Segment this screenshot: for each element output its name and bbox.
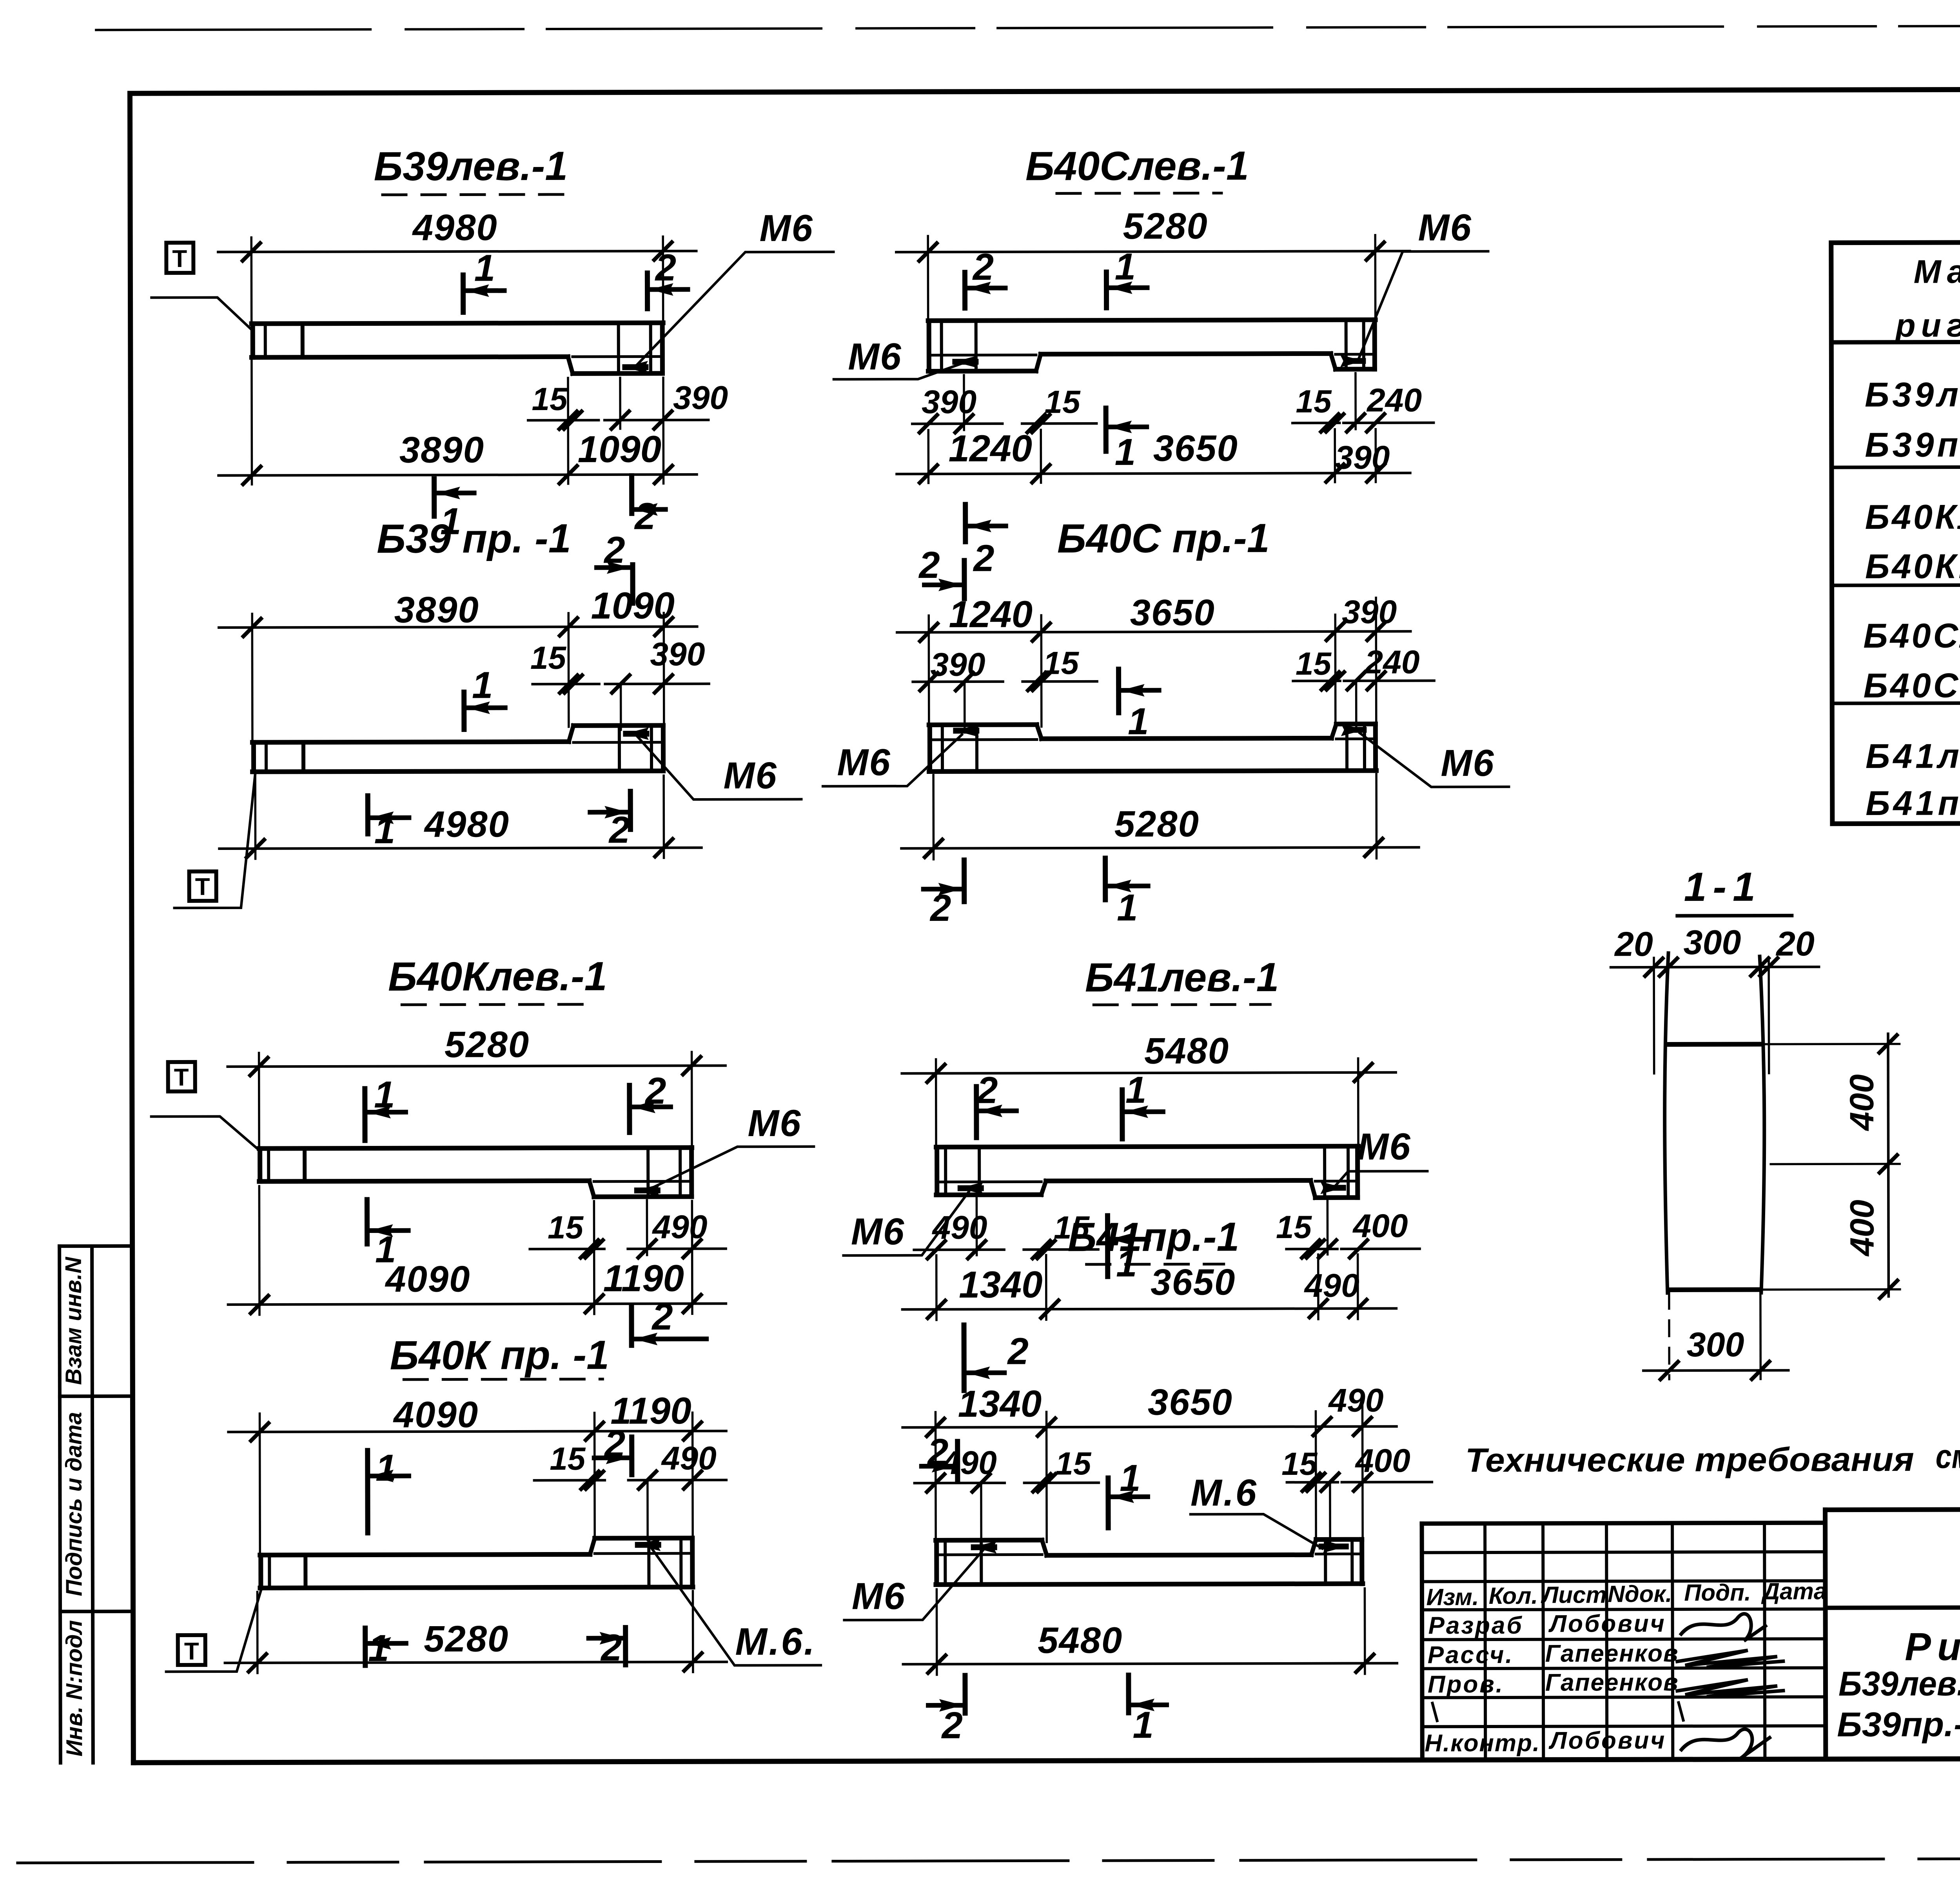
B40Spr-1 dims 15 240 row right <box>1355 681 1357 728</box>
svg-text:1090: 1090 <box>591 585 675 626</box>
svg-text:Б39пр.-1: Б39пр.-1 <box>1865 425 1960 464</box>
svg-text:Кол.: Кол. <box>1489 1583 1538 1609</box>
B41lev-1 bottom dims 1340 3650 490 <box>935 1255 938 1320</box>
svg-text:400: 400 <box>1355 1442 1410 1479</box>
B39pr-1 section mark 2 bottom <box>628 792 633 830</box>
svg-text:Б41пр.-1: Б41пр.-1 <box>1866 783 1960 822</box>
B40Spr-1 top dims 1240 3650 390 <box>927 615 930 727</box>
svg-text:Лобович: Лобович <box>1548 1610 1666 1638</box>
svg-text:390: 390 <box>673 379 728 416</box>
svg-text:15: 15 <box>1296 646 1332 682</box>
section 1-1 top dims 20 300 20 <box>1611 967 1819 967</box>
svg-text:Т: Т <box>195 873 210 901</box>
B39pr-1 top dims 3890 1090 <box>251 614 253 745</box>
svg-text:390: 390 <box>922 383 976 420</box>
B40Slev-1 section mark 2 bottom <box>963 505 968 542</box>
title block empty row ticks <box>1432 1703 1437 1721</box>
B40Klev-1 dim 490 <box>646 1200 648 1255</box>
B41pr-1 section mark 2 bottom <box>962 1676 967 1713</box>
svg-text:2: 2 <box>603 529 625 571</box>
B39lev-1 section mark 1 top <box>461 275 466 312</box>
svg-text:Б39лев.-1 ... Б41лев.-1,: Б39лев.-1 ... Б41лев.-1, <box>1838 1663 1960 1703</box>
svg-text:М6: М6 <box>1441 742 1495 784</box>
B41pr-1 dims 490 15 row <box>980 1483 982 1545</box>
B40Klev-1 top dim 5280 <box>258 1053 260 1150</box>
svg-text:1: 1 <box>1125 1069 1147 1111</box>
B40Kpr-1 bottom dim 5280 <box>256 1592 259 1673</box>
svg-text:240: 240 <box>1366 381 1422 418</box>
svg-text:1: 1 <box>368 1627 389 1669</box>
B40Klev-1 M6 leader and label <box>649 1147 814 1189</box>
svg-text:1: 1 <box>472 664 493 706</box>
svg-text:2: 2 <box>973 537 995 579</box>
B41lev-1 beam outline <box>936 1146 1358 1147</box>
svg-text:2: 2 <box>604 1423 626 1465</box>
B40Slev-1 dims 15 240 row right <box>1354 373 1357 429</box>
B40Kpr-1 dim 15 <box>534 1479 605 1481</box>
svg-text:Разраб: Разраб <box>1428 1612 1523 1639</box>
B40Klev-1 bolt M6 <box>637 1187 657 1193</box>
B40Klev-1 section mark 1 top <box>362 1089 367 1140</box>
svg-text:5480: 5480 <box>1038 1619 1123 1661</box>
svg-text:2: 2 <box>600 1627 622 1669</box>
svg-text:15: 15 <box>1044 384 1081 420</box>
B40Spr-1 M6 left leader and label <box>823 735 962 786</box>
svg-text:4980: 4980 <box>424 803 510 844</box>
svg-text:Подпись и дата: Подпись и дата <box>61 1412 87 1596</box>
section 1-1 bottom dim 300 <box>1668 1293 1670 1379</box>
B40Spr-1 section mark 2 bottom <box>962 860 967 902</box>
B41lev-1 dims 15 400 row right <box>1327 1200 1329 1255</box>
svg-text:Дата: Дата <box>1761 1578 1827 1604</box>
svg-text:Марка: Марка <box>1914 253 1960 290</box>
B40Spr-1 section mark 1 bottom <box>1103 858 1108 900</box>
svg-text:2: 2 <box>976 1069 998 1111</box>
B39pr-1 section mark 1 mid <box>461 692 466 729</box>
B40Slev-1 top dim 5280 <box>927 236 929 319</box>
svg-text:Б41лев.-1: Б41лев.-1 <box>1085 955 1279 1000</box>
svg-text:5280: 5280 <box>424 1618 509 1659</box>
svg-text:Б39лев.-1: Б39лев.-1 <box>1865 375 1960 414</box>
B40Klev-1 bottom dims 4090 1190 <box>258 1186 261 1315</box>
B41pr-1 dims 15 400 row right <box>1329 1482 1331 1541</box>
B40Klev-1 beam outline <box>259 1147 692 1148</box>
svg-text:3650: 3650 <box>1148 1381 1233 1422</box>
B39lev-1 section mark 2 top <box>645 273 650 309</box>
svg-text:490: 490 <box>652 1208 707 1245</box>
svg-text:см. 1.420-35.95.2-1-1ТТ.: см. 1.420-35.95.2-1-1ТТ. <box>1936 1437 1960 1476</box>
svg-text:2: 2 <box>655 247 677 289</box>
page edge top dashed line <box>96 25 1960 30</box>
B40Spr-1 M6 right leader and label <box>1360 733 1509 787</box>
svg-text:1240: 1240 <box>948 427 1032 469</box>
B41lev-1 bolt M6 right <box>1326 1185 1343 1191</box>
B40Kpr-1 section mark 1 bottom <box>363 1628 368 1665</box>
B41lev-1 section mark 1 mid-bottom <box>1105 1216 1110 1276</box>
B40Kpr-1 section mark 1 mid <box>365 1451 370 1533</box>
B40Slev-1 bolt M6 right <box>1346 358 1363 364</box>
svg-text:15: 15 <box>1043 645 1080 681</box>
svg-text:2: 2 <box>634 495 656 537</box>
B40Spr-1 bottom dim 5280 <box>932 775 935 859</box>
girder marks table <box>1831 241 1960 824</box>
svg-text:Т: Т <box>184 1638 199 1665</box>
B40Kpr-1 dim 490 <box>646 1480 649 1540</box>
B39lev-1 dim 390 <box>619 378 621 429</box>
B41pr-1 top dims 1340 3650 490 <box>935 1412 937 1542</box>
B39pr-1 M6 leader and label <box>637 736 801 800</box>
B40Slev-1 section mark 2 top <box>962 272 967 308</box>
svg-text:1190: 1190 <box>603 1257 684 1299</box>
B40Spr-1 dims 390 15 row <box>964 682 966 729</box>
B40Slev-1 bottom dims 1240 3650 390 <box>927 430 929 483</box>
svg-text:1: 1 <box>474 247 495 289</box>
B39lev-1 top dim 4980 <box>250 238 252 328</box>
B41lev-1 dims 490 15 row <box>976 1197 978 1255</box>
svg-text:490: 490 <box>941 1444 997 1481</box>
B40Spr-1 bolt M6 left <box>956 728 976 733</box>
B40Slev-1 dims 390 15 row <box>963 375 965 430</box>
svg-text:15: 15 <box>1055 1446 1092 1481</box>
svg-text:15: 15 <box>532 381 568 417</box>
B41pr-1 M6 right leader and label <box>1191 1514 1322 1549</box>
svg-text:Б40Слев-1: Б40Слев-1 <box>1863 616 1960 655</box>
B41lev-1 top dim 5480 <box>935 1059 937 1149</box>
svg-text:1: 1 <box>1115 246 1136 288</box>
B41lev-1 M6 left leader and label <box>843 1192 969 1256</box>
svg-text:1340: 1340 <box>959 1264 1043 1305</box>
svg-text:2: 2 <box>941 1705 963 1747</box>
svg-text:Лист: Лист <box>1541 1581 1607 1608</box>
B40Slev-1 section mark 1 top <box>1104 272 1109 308</box>
svg-text:М6: М6 <box>848 336 902 378</box>
B39lev-1 M6 leader and label <box>636 252 834 365</box>
B40Klev-1 section mark 2 bottom <box>629 1307 634 1345</box>
svg-text:1: 1 <box>1115 431 1136 473</box>
svg-text:2: 2 <box>608 809 630 851</box>
svg-text:Изм.: Изм. <box>1426 1584 1479 1610</box>
svg-text:2: 2 <box>972 246 994 288</box>
B40Kpr-1 M6 leader and label <box>650 1546 821 1666</box>
left stamp column <box>60 1246 61 1763</box>
svg-text:1: 1 <box>374 1074 395 1116</box>
svg-text:1: 1 <box>1120 1457 1141 1499</box>
B41pr-1 bottom dim 5480 <box>936 1589 938 1675</box>
svg-text:1: 1 <box>1132 1704 1154 1746</box>
svg-text:Пров.: Пров. <box>1428 1671 1504 1698</box>
B40Klev-1 section mark 2 top <box>627 1086 632 1133</box>
section 1-1 outline <box>1653 958 1655 1073</box>
svg-text:490: 490 <box>931 1209 987 1246</box>
svg-text:2: 2 <box>1007 1330 1029 1372</box>
svg-text:15: 15 <box>1281 1446 1318 1482</box>
svg-text:4980: 4980 <box>412 207 497 248</box>
svg-text:Б39 пр. -1: Б39 пр. -1 <box>377 516 571 562</box>
svg-text:Б40К пр. -1: Б40К пр. -1 <box>390 1333 609 1378</box>
B41pr-1 section mark 2 upper <box>955 1442 960 1480</box>
section 1-1 right dims 400 400 <box>1764 1043 1900 1045</box>
page edge bottom dashed line <box>18 1857 1960 1863</box>
B40Slev-1 bolt M6 left <box>955 359 976 365</box>
svg-text:1-1: 1-1 <box>1684 864 1762 910</box>
svg-text:Гапеенков: Гапеенков <box>1545 1640 1679 1667</box>
svg-text:5280: 5280 <box>1123 205 1208 247</box>
svg-text:2: 2 <box>644 1070 666 1112</box>
svg-text:Т: Т <box>172 245 187 272</box>
B39lev-1 beam outline <box>252 323 663 323</box>
svg-text:Б40Спр.-1: Б40Спр.-1 <box>1864 666 1960 705</box>
svg-text:1240: 1240 <box>949 593 1033 635</box>
svg-text:15: 15 <box>530 640 567 676</box>
B41pr-1 M6 left leader and label <box>844 1550 983 1620</box>
svg-text:1090: 1090 <box>577 428 661 470</box>
svg-text:М.6: М.6 <box>1191 1472 1258 1514</box>
svg-text:Б40С пр.-1: Б40С пр.-1 <box>1057 516 1270 561</box>
B40Klev-1 dim 15 <box>530 1247 604 1250</box>
svg-text:1340: 1340 <box>958 1383 1042 1425</box>
svg-text:Б41лев-1: Б41лев-1 <box>1866 736 1960 775</box>
svg-text:Б39лев.-1: Б39лев.-1 <box>374 143 568 189</box>
B41pr-1 beam outline <box>936 1538 1042 1543</box>
svg-text:15: 15 <box>550 1441 586 1477</box>
svg-text:5480: 5480 <box>1144 1030 1229 1071</box>
B40Kpr-1 T box marker <box>178 1635 205 1665</box>
svg-text:390: 390 <box>1335 439 1390 476</box>
svg-text:М.6.: М.6. <box>735 1620 816 1663</box>
title block frame <box>1422 1508 1960 1760</box>
svg-text:4090: 4090 <box>385 1258 470 1299</box>
B40Spr-1 bolt M6 right <box>1347 727 1364 733</box>
B39pr-1 section mark 1 bottom <box>365 796 370 834</box>
B39pr-1 beam outline <box>573 723 663 728</box>
svg-text:Ригель: Ригель <box>1905 1625 1960 1669</box>
svg-text:3650: 3650 <box>1153 427 1238 468</box>
svg-text:М6: М6 <box>759 207 813 249</box>
svg-text:400: 400 <box>1843 1200 1881 1257</box>
B39pr-1 bottom dim 4980 <box>254 777 256 859</box>
svg-text:2: 2 <box>929 887 951 929</box>
B41lev-1 M6 right leader and label <box>1336 1171 1427 1185</box>
B41lev-1 bolt M6 left <box>960 1185 981 1191</box>
view B40Spr-1 section mark 2 upper <box>962 561 967 599</box>
svg-text:М6: М6 <box>851 1211 905 1253</box>
svg-text:20: 20 <box>1775 924 1815 963</box>
svg-text:Инв. N:подл: Инв. N:подл <box>62 1620 87 1757</box>
B39lev-1 bottom dims 3890 1090 <box>250 336 253 485</box>
B39lev-1 dim 15 <box>567 378 569 429</box>
B40Kpr-1 section mark 2 upper <box>629 1437 634 1475</box>
svg-text:М6: М6 <box>837 741 891 783</box>
svg-text:М6: М6 <box>1418 207 1472 249</box>
svg-text:5280: 5280 <box>1114 803 1200 844</box>
svg-text:Б40Кпр.-1: Б40Кпр.-1 <box>1865 546 1960 586</box>
B41lev-1 section mark 1 top <box>1120 1090 1125 1139</box>
svg-text:3650: 3650 <box>1151 1261 1236 1302</box>
B40Kpr-1 beam outline <box>595 1536 692 1541</box>
svg-text:Б41пр.-1: Б41пр.-1 <box>1068 1214 1240 1260</box>
B41lev-1 section mark 2 bottom <box>962 1325 967 1391</box>
B39pr-1 T box marker <box>189 871 216 901</box>
B39pr-1 dim 15 <box>533 683 599 686</box>
B39lev-1 section mark 2 bottom <box>629 476 634 514</box>
svg-text:15: 15 <box>1296 384 1332 419</box>
svg-text:20: 20 <box>1614 924 1653 963</box>
svg-text:490: 490 <box>1328 1382 1383 1419</box>
svg-text:М6: М6 <box>1357 1126 1411 1167</box>
svg-text:Nдок.: Nдок. <box>1608 1581 1672 1607</box>
svg-text:Рассч.: Рассч. <box>1428 1641 1514 1669</box>
B39pr-1 dim 390 <box>620 684 622 730</box>
svg-text:Подп.: Подп. <box>1684 1580 1751 1606</box>
B41pr-1 bolt M6 left <box>974 1544 994 1550</box>
svg-text:Т: Т <box>174 1064 189 1091</box>
svg-text:240: 240 <box>1364 643 1419 680</box>
B41pr-1 bolt M6 right <box>1321 1543 1346 1549</box>
B41pr-1 section mark 1 bottom <box>1126 1675 1131 1713</box>
svg-text:ригеля: ригеля <box>1895 307 1960 344</box>
svg-text:1: 1 <box>374 810 396 851</box>
svg-text:1: 1 <box>375 1229 396 1271</box>
B41lev-1 section mark 2 top <box>974 1087 979 1138</box>
B40Slev-1 M6 left label <box>834 364 961 379</box>
svg-text:2: 2 <box>918 544 940 586</box>
B39pr-1 section mark 2 upper <box>630 565 635 603</box>
svg-text:1: 1 <box>1117 887 1138 929</box>
svg-text:400: 400 <box>1352 1207 1408 1244</box>
B41pr-1 section mark 1 mid <box>1105 1478 1111 1528</box>
B39pr-1 bolt M6 <box>626 731 646 737</box>
svg-text:15: 15 <box>548 1210 584 1245</box>
B40Klev-1 T box marker <box>168 1062 195 1091</box>
svg-text:390: 390 <box>650 635 705 672</box>
svg-text:300: 300 <box>1687 1325 1744 1364</box>
svg-text:490: 490 <box>661 1440 717 1476</box>
svg-text:Б40Слев.-1: Б40Слев.-1 <box>1025 143 1249 189</box>
svg-text:Гапеенков: Гапеенков <box>1545 1669 1679 1696</box>
B40Kpr-1 section mark 2 bottom <box>623 1628 628 1665</box>
B40Spr-1 section mark 1 mid <box>1116 669 1121 713</box>
svg-text:М6: М6 <box>852 1575 906 1617</box>
B39lev-1 section mark 1 bottom <box>432 479 437 516</box>
svg-text:Технические требования: Технические требования <box>1465 1441 1914 1479</box>
svg-text:15: 15 <box>1276 1209 1312 1245</box>
svg-text:5280: 5280 <box>445 1024 530 1065</box>
svg-text:Б39пр.-1 ... Б41пр.-1: Б39пр.-1 ... Б41пр.-1 <box>1837 1704 1960 1744</box>
svg-text:Лобович: Лобович <box>1548 1727 1666 1754</box>
svg-text:Б40Клев.-1: Б40Клев.-1 <box>1865 497 1960 536</box>
svg-text:1: 1 <box>376 1447 397 1489</box>
svg-text:М6: М6 <box>723 755 777 797</box>
svg-text:390: 390 <box>1342 594 1397 630</box>
svg-text:2: 2 <box>651 1296 673 1338</box>
B40Kpr-1 bolt M6 <box>638 1542 658 1548</box>
B40Slev-1 section mark 1 mid-bottom <box>1103 408 1109 451</box>
B40Slev-1 M6 right leader and label <box>1358 251 1488 360</box>
svg-text:3650: 3650 <box>1130 592 1215 633</box>
B40Spr-1 beam outline <box>929 722 1037 727</box>
B40Klev-1 section mark 1 bottom <box>365 1200 370 1244</box>
B40Kpr-1 top dims 4090 1190 <box>259 1414 261 1557</box>
svg-text:300: 300 <box>1683 923 1741 962</box>
svg-text:Б40Клев.-1: Б40Клев.-1 <box>388 954 607 1000</box>
svg-text:3890: 3890 <box>394 589 479 630</box>
svg-text:М6: М6 <box>748 1102 802 1144</box>
B39lev-1 T box marker <box>166 243 193 273</box>
B40Slev-1 beam outline <box>928 320 1376 321</box>
svg-text:400: 400 <box>1843 1074 1881 1131</box>
svg-text:3890: 3890 <box>399 429 485 470</box>
B39lev-1 bolt M6 <box>625 364 646 370</box>
svg-text:Н.контр.: Н.контр. <box>1425 1730 1540 1757</box>
svg-text:390: 390 <box>930 646 985 683</box>
svg-text:4090: 4090 <box>393 1394 479 1435</box>
svg-text:Взам инв.N: Взам инв.N <box>61 1256 87 1385</box>
svg-text:490: 490 <box>1304 1267 1359 1304</box>
